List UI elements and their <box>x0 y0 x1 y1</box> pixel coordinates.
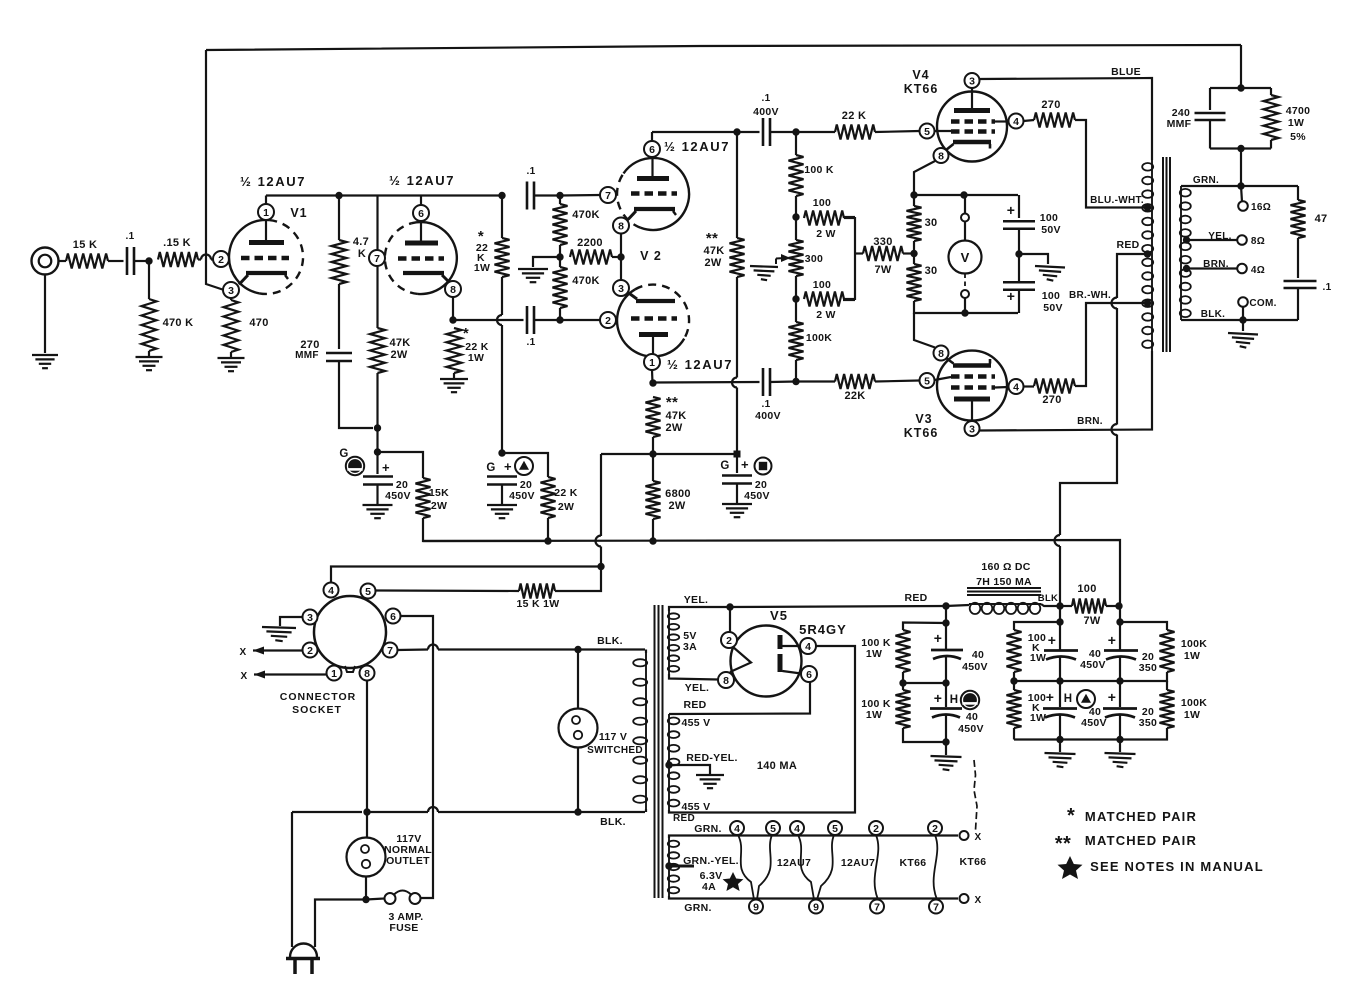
node B2 junction <box>942 679 949 686</box>
svg-text:100: 100 <box>1077 583 1096 595</box>
socket pin 5 <box>361 584 376 599</box>
svg-text:.1: .1 <box>1323 282 1332 293</box>
node C3 junction <box>1056 736 1063 743</box>
wire R17 to rail <box>423 518 548 541</box>
svg-text:8: 8 <box>618 220 624 232</box>
wire node F to pin2 V2B <box>560 319 600 321</box>
svg-text:+: + <box>382 460 390 475</box>
ground secondary <box>1228 333 1258 348</box>
wire BLK corner to plug <box>291 812 293 947</box>
wire V2A plate rail <box>652 131 760 133</box>
resistor R18 22K 2W <box>541 477 556 518</box>
svg-text:7: 7 <box>374 253 380 265</box>
svg-text:3: 3 <box>969 75 975 87</box>
svg-text:½ 12AU7: ½ 12AU7 <box>664 139 730 154</box>
wire pin1 V1 to plate <box>265 220 267 240</box>
wire caps branch top <box>1018 195 1020 218</box>
tube V1 envelope <box>229 220 303 294</box>
capacitor C3 .1 <box>527 306 534 334</box>
svg-text:5: 5 <box>924 375 930 387</box>
svg-text:450V: 450V <box>962 661 988 673</box>
svg-text:BRN.: BRN. <box>1203 259 1229 270</box>
svg-text:300: 300 <box>805 253 823 265</box>
cathode V1 <box>246 271 287 275</box>
wire N2 to R20 <box>1060 605 1072 607</box>
svg-text:+: + <box>741 457 749 472</box>
svg-text:BLU.-WHT.: BLU.-WHT. <box>1090 195 1144 206</box>
svg-text:.15 K: .15 K <box>163 237 191 249</box>
wire meter bottom solid <box>964 298 966 313</box>
svg-text:12AU7: 12AU7 <box>777 857 811 869</box>
wire rail to fb top <box>1240 45 1242 88</box>
ground socket pin3 <box>262 627 296 641</box>
node F4 junction <box>1237 145 1244 152</box>
wire node W to fuse <box>366 899 385 900</box>
wire C13 to bottom <box>1059 715 1061 742</box>
wire cathode V3 tick <box>989 359 992 364</box>
ground bank B <box>931 756 962 770</box>
svg-text:BLUE: BLUE <box>1111 66 1141 78</box>
tube V2B envelope <box>617 285 689 357</box>
svg-text:4Ω: 4Ω <box>1251 265 1265 276</box>
resistor R15 6800 2W <box>646 481 661 519</box>
wire BLK bottom right <box>438 811 645 813</box>
wire R31 to BR-WH corner <box>1075 303 1148 386</box>
resistor R21 100K 1W <box>896 630 911 672</box>
svg-text:4: 4 <box>734 823 740 835</box>
svg-text:MATCHED PAIR: MATCHED PAIR <box>1085 833 1197 848</box>
svg-text:470 K: 470 K <box>163 317 194 329</box>
capacitor C10 40 450V <box>931 650 963 659</box>
pin 2 V5 <box>721 632 737 648</box>
wire C11 to bottom <box>945 715 947 742</box>
wire heater jumper 5b-9b <box>817 835 834 900</box>
svg-text:1W: 1W <box>1030 652 1046 664</box>
capacitor C6 .1 400V <box>763 368 770 396</box>
ground C9 <box>722 504 752 517</box>
svg-text:7: 7 <box>933 901 939 913</box>
pin 8 V4 <box>934 148 949 163</box>
resistor R6 47K 2W <box>370 328 385 373</box>
svg-text:100: 100 <box>1040 212 1058 224</box>
svg-text:YEL.: YEL. <box>684 594 709 606</box>
pin 2 V1 <box>213 251 229 267</box>
ground hum pot <box>750 266 778 280</box>
wire R23 to R24 <box>1013 672 1015 690</box>
pin 1 V2B <box>644 354 660 370</box>
resistor R24 100K 1W <box>1007 690 1022 728</box>
power transformer primary winding <box>633 653 647 809</box>
wire B mid rail <box>903 682 946 684</box>
svg-text:7: 7 <box>874 901 880 913</box>
wire node E to C3 <box>453 319 524 321</box>
svg-text:H: H <box>950 694 959 706</box>
wire R33 down <box>1270 140 1272 149</box>
svg-text:2W: 2W <box>558 501 574 513</box>
wire riser to RED tap <box>1117 254 1148 298</box>
pin 8 V5 <box>718 672 734 688</box>
wire C cluster top left <box>1014 622 1060 630</box>
heater center tap <box>665 862 672 869</box>
wire R30 to BLU-WHT tap <box>1075 120 1148 208</box>
wire D mid rail <box>1120 672 1167 681</box>
svg-text:160 Ω DC: 160 Ω DC <box>981 561 1030 573</box>
svg-text:5%: 5% <box>1290 131 1306 143</box>
svg-text:1: 1 <box>649 357 655 369</box>
svg-text:4: 4 <box>1013 381 1019 393</box>
wire N2 down <box>1059 606 1061 650</box>
wire R35 right <box>844 217 855 219</box>
svg-text:RED: RED <box>683 699 706 711</box>
svg-text:6: 6 <box>806 669 812 681</box>
resistor R5 4.7K <box>332 240 347 284</box>
pin 3 V4 <box>965 73 980 88</box>
svg-text:3: 3 <box>307 612 313 624</box>
heater pin 9 a <box>749 900 763 914</box>
grid V3 g1 <box>951 374 995 379</box>
svg-text:+: + <box>934 630 942 646</box>
wire cathode V2A hook <box>629 211 637 219</box>
wire node K to pin3 V2B <box>620 257 622 280</box>
svg-text:8: 8 <box>723 675 729 687</box>
plate V5 upper <box>778 635 783 649</box>
terminal X top <box>960 831 969 840</box>
svg-text:K: K <box>358 248 366 260</box>
svg-text:117 V: 117 V <box>599 731 627 743</box>
resistor R2 470K <box>142 299 157 351</box>
wire C8 to ground <box>501 485 503 505</box>
meter dashed bottom <box>964 274 966 291</box>
svg-text:V5: V5 <box>770 608 788 623</box>
svg-text:2: 2 <box>932 823 938 835</box>
wire pot to R37 <box>795 276 797 300</box>
svg-text:4700: 4700 <box>1286 105 1311 117</box>
svg-text:V1: V1 <box>290 206 307 220</box>
wire C12 to mid <box>1059 657 1061 707</box>
node R18 rail junction <box>544 537 551 544</box>
wire R3 to pin2 V1 right <box>211 258 214 260</box>
svg-text:470: 470 <box>249 317 268 329</box>
svg-text:3: 3 <box>618 283 624 295</box>
node W junction <box>362 896 369 903</box>
socket pin 1 <box>327 666 342 681</box>
svg-text:*: * <box>1067 805 1075 827</box>
wire node I to R9 <box>559 196 561 205</box>
wire feedback vertical <box>206 50 223 290</box>
wire pin6 V1B to plate <box>420 221 422 241</box>
wire fb right down <box>1270 88 1272 95</box>
wire R34 to hum top <box>795 196 797 240</box>
svg-text:FUSE: FUSE <box>389 922 418 934</box>
svg-text:BLK.: BLK. <box>1201 309 1226 320</box>
wire jack to R1 <box>59 260 67 262</box>
terminal 4 ohm <box>1237 264 1247 274</box>
wire hop feed over rail <box>596 536 602 547</box>
svg-text:50V: 50V <box>1043 302 1063 314</box>
svg-text:SOCKET: SOCKET <box>292 704 342 716</box>
svg-text:GRN.: GRN. <box>684 902 711 914</box>
svg-text:8Ω: 8Ω <box>1251 236 1265 247</box>
capacitor C11 40 450V <box>930 709 962 718</box>
wire R21 to R22 <box>902 672 904 690</box>
wire node L to R16 <box>736 132 738 238</box>
ground R7 <box>440 379 468 392</box>
capacitor C9 20 450V <box>722 476 752 484</box>
svg-text:470K: 470K <box>572 275 600 287</box>
svg-text:1W: 1W <box>468 352 484 364</box>
svg-text:GRN.: GRN. <box>694 823 721 835</box>
wire C17 to bottom <box>1018 290 1020 313</box>
svg-text:X: X <box>975 895 982 906</box>
svg-text:+: + <box>934 690 942 706</box>
svg-text:+: + <box>1046 689 1054 705</box>
wire R6 to node D <box>376 373 378 452</box>
wire R13 to pin5 V3 <box>875 381 920 382</box>
star symbol 6.3V <box>723 872 744 891</box>
wire R27 to node M2 <box>913 241 915 264</box>
node M1 junction <box>910 191 917 198</box>
wire B3 to ground <box>945 742 947 755</box>
svg-text:3: 3 <box>969 423 975 435</box>
wire cathode V1 hook <box>239 275 248 285</box>
wire R32 to C18 <box>1297 238 1299 278</box>
socket pin 6 <box>386 609 401 624</box>
node B2b junction <box>899 679 906 686</box>
wire pin4 V3 to R31 <box>1024 385 1035 387</box>
wire pin1 V1 stub <box>265 196 267 205</box>
svg-text:RED: RED <box>673 813 695 824</box>
resistor R11 470K <box>553 267 568 308</box>
node B3 junction <box>942 738 949 745</box>
wire R16 to hop <box>736 277 738 378</box>
node F3 junction <box>1237 84 1244 91</box>
wire pin4 V4 to R30 <box>1024 120 1035 121</box>
wire pin8 V4 to cathode <box>946 144 954 150</box>
svg-text:CONNECTOR: CONNECTOR <box>280 691 356 703</box>
svg-text:47K: 47K <box>389 337 410 349</box>
wire hop to node R <box>736 388 738 455</box>
wire hum pot link bottom <box>843 299 855 301</box>
capacitor C1 .1 <box>127 247 134 275</box>
wire plate V2B stub <box>652 337 654 354</box>
grid V1B <box>398 256 444 261</box>
svg-text:.1: .1 <box>527 337 536 348</box>
grid V4 g1 <box>951 129 995 134</box>
resistor R36 300 pot <box>789 240 804 276</box>
node N1 junction <box>942 602 949 609</box>
pin 6 V5 <box>801 666 817 682</box>
ground R4 <box>218 358 245 371</box>
wire pin1 V2B to node N <box>651 370 654 383</box>
resistor R25 100K 1W <box>1160 630 1175 672</box>
svg-text:H: H <box>1064 693 1073 705</box>
wire R26 mid stub <box>1166 681 1168 690</box>
wire heater jumper 2b-7b <box>934 835 938 900</box>
svg-text:100K: 100K <box>1181 697 1207 709</box>
wire C1 to node A <box>134 260 149 262</box>
resistor R3 15K <box>158 252 198 267</box>
outlet 117V switched <box>559 709 598 748</box>
svg-text:15 K 1W: 15 K 1W <box>517 598 560 610</box>
wire primary top lead <box>645 650 647 654</box>
svg-text:450V: 450V <box>1081 717 1107 729</box>
svg-text:1W: 1W <box>866 709 882 721</box>
svg-text:6800: 6800 <box>665 488 691 500</box>
node C junction <box>374 424 381 431</box>
socket pin 2 <box>303 643 318 658</box>
capacitor C18 .1 <box>1284 281 1317 288</box>
plate V1 <box>249 240 284 245</box>
svg-text:100K: 100K <box>806 332 832 344</box>
svg-text:15 K: 15 K <box>73 239 97 251</box>
svg-text:+: + <box>1108 632 1116 648</box>
svg-text:X: X <box>240 647 247 658</box>
primary tap BLU-WHT <box>1144 204 1151 211</box>
capacitor C8 20 450V <box>487 477 517 485</box>
wire fuse node left <box>315 900 366 948</box>
resistor R16 47K 2W <box>730 238 745 277</box>
wire R10 to node K <box>612 256 621 258</box>
wire 4ohm tap <box>1186 267 1237 269</box>
heater pin 5 b <box>828 821 842 835</box>
HV center tap <box>665 761 672 768</box>
wire R29 left link <box>855 252 863 254</box>
svg-text:2W: 2W <box>431 500 447 512</box>
svg-text:22K: 22K <box>844 390 865 402</box>
wire R29 to node M2 <box>903 252 914 254</box>
wire hop over feedback line <box>201 255 211 260</box>
svg-text:BLK: BLK <box>1038 593 1058 604</box>
svg-text:9: 9 <box>753 901 759 913</box>
grid V3 g2 <box>951 385 995 390</box>
fuse 3A <box>385 891 421 905</box>
resistor R37 100 2W <box>804 292 844 307</box>
cathode V2B <box>636 299 675 303</box>
svg-text:2 W: 2 W <box>816 309 836 321</box>
svg-text:9: 9 <box>813 901 819 913</box>
wire node D to C7 <box>376 452 378 474</box>
wire hop riser over BRN <box>1112 424 1118 435</box>
node D1 junction <box>1116 618 1123 625</box>
secondary tap 4ohm <box>1183 265 1190 272</box>
svg-text:5: 5 <box>365 586 371 598</box>
svg-text:50V: 50V <box>1041 224 1061 236</box>
heater pin 9 b <box>809 900 823 914</box>
wire X arrow pin1 <box>254 671 327 679</box>
meter terminal bottom <box>961 290 969 298</box>
wire 16ohm stub <box>1241 186 1242 202</box>
svg-text:5: 5 <box>924 126 930 138</box>
node O junction <box>792 378 799 385</box>
svg-text:2200: 2200 <box>577 237 603 249</box>
wire B+ rail <box>423 540 1120 606</box>
socket pin 3 <box>303 610 318 625</box>
node T junction <box>574 646 581 653</box>
wire BLUE plate V4 <box>980 78 1153 160</box>
svg-text:350: 350 <box>1139 717 1157 729</box>
socket pin 8 <box>360 666 375 681</box>
capacitor C7 20 450V <box>363 477 393 485</box>
capacitor C17 100 50V <box>1003 282 1035 290</box>
wire cathode V1 tick <box>285 275 288 279</box>
pin 5 V3 <box>920 373 935 388</box>
pin 4 V4 <box>1009 114 1024 129</box>
wire D cluster top right <box>1120 622 1167 630</box>
wire fb left down <box>1209 88 1211 110</box>
svg-text:3: 3 <box>228 285 234 297</box>
svg-text:7: 7 <box>605 190 611 202</box>
svg-text:2 W: 2 W <box>816 228 836 240</box>
node S junction <box>597 563 604 570</box>
svg-text:SWITCHED: SWITCHED <box>587 745 643 756</box>
svg-text:8: 8 <box>364 668 370 680</box>
resistor R22 100K 1W <box>896 690 911 728</box>
svg-text:450V: 450V <box>1080 659 1106 671</box>
wire pin3 to ground <box>280 617 303 626</box>
wire node A down <box>148 261 150 299</box>
resistor R31 270 <box>1034 379 1075 394</box>
capacitor C13 40 450V <box>1043 709 1077 718</box>
wire pin5 V3 to grid <box>935 377 952 380</box>
wire 5V top lead <box>669 607 727 611</box>
svg-text:400V: 400V <box>753 106 779 118</box>
transformer HV winding <box>668 714 680 810</box>
svg-text:22 K: 22 K <box>554 487 577 499</box>
wire node M to R12 <box>796 131 835 133</box>
svg-text:V4: V4 <box>912 68 929 82</box>
wire B bottom rail <box>903 728 946 742</box>
wire C14 to mid <box>1119 657 1121 707</box>
wire node D to R17 <box>378 452 424 478</box>
wire N1 to choke <box>946 605 969 606</box>
svg-text:450V: 450V <box>385 490 411 502</box>
wire plate V5 to pin4 <box>783 645 801 647</box>
transformer 5V winding <box>668 611 679 674</box>
wire pin8 V4 down <box>914 161 935 206</box>
svg-text:100: 100 <box>813 197 831 209</box>
wire R38 to node O <box>795 360 797 382</box>
svg-text:BRN.: BRN. <box>1077 416 1103 427</box>
wire pin8 V1B down <box>452 297 454 320</box>
node D2 junction <box>1116 677 1123 684</box>
cathode V1B <box>403 271 444 275</box>
ground C8 <box>487 505 517 518</box>
wire node H to R18 <box>502 453 548 477</box>
svg-text:1W: 1W <box>866 648 882 660</box>
svg-text:4: 4 <box>805 641 811 653</box>
heater pin 5 a <box>766 821 780 835</box>
svg-text:½ 12AU7: ½ 12AU7 <box>389 173 455 188</box>
wire node J ground stub <box>533 257 560 267</box>
wire choke to N2 <box>1041 604 1060 606</box>
wire cathode V2A tick <box>673 211 676 215</box>
svg-text:½ 12AU7: ½ 12AU7 <box>667 357 733 372</box>
sketchy heater bias line <box>974 760 977 830</box>
svg-text:470K: 470K <box>572 209 600 221</box>
wire node B to R5 <box>338 196 340 241</box>
wire top rail <box>206 45 1241 50</box>
wire secondary bottom <box>1181 319 1298 321</box>
svg-text:270: 270 <box>1042 394 1061 406</box>
wire hop pin7 wire over pin6 drop <box>428 645 438 650</box>
svg-text:KT66: KT66 <box>904 426 939 440</box>
svg-text:RED-YEL.: RED-YEL. <box>686 752 737 764</box>
wire pin6 V2A to plate <box>651 157 653 176</box>
plate V4 <box>954 108 990 113</box>
resistor R12 22K <box>835 125 875 140</box>
wire R2 to ground <box>148 351 150 356</box>
node V junction <box>574 808 581 815</box>
